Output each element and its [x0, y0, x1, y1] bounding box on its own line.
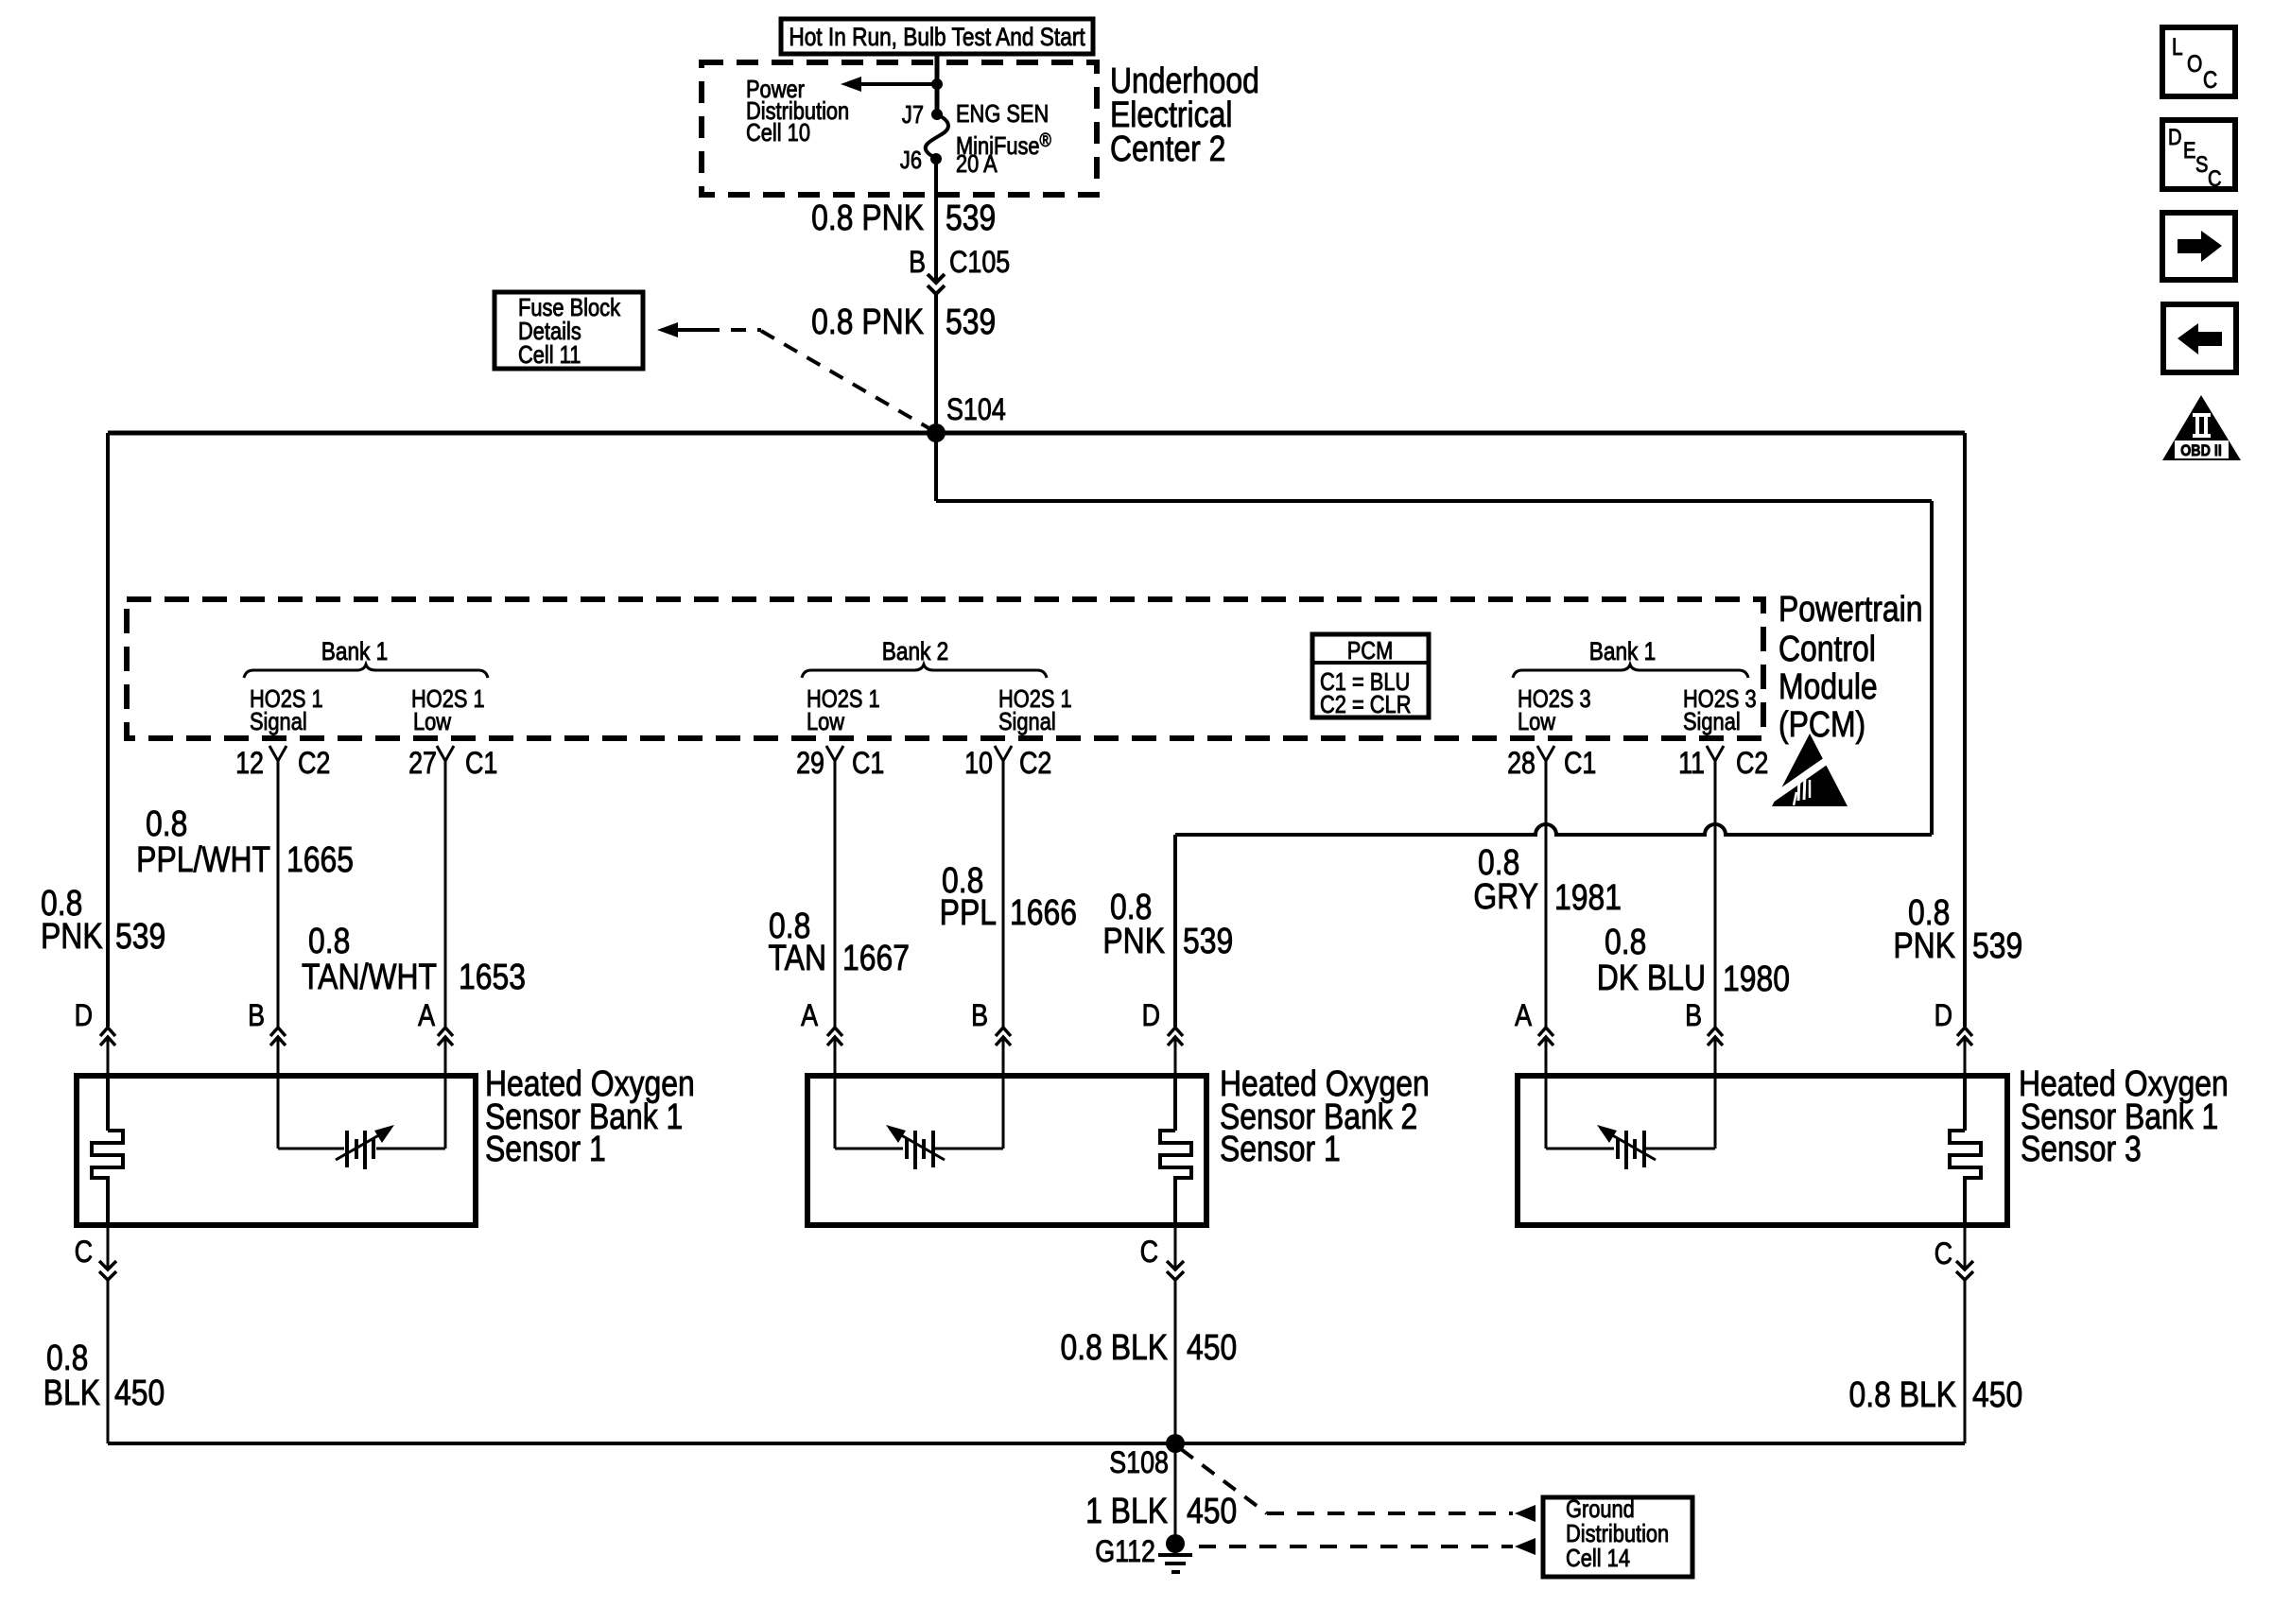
- svg-text:1981: 1981: [1554, 877, 1622, 917]
- svg-text:O: O: [2187, 50, 2202, 77]
- svg-text:D: D: [1935, 999, 1952, 1033]
- svg-text:OBD II: OBD II: [2180, 442, 2222, 459]
- svg-text:C: C: [1935, 1237, 1952, 1271]
- svg-text:PCM: PCM: [1347, 637, 1394, 665]
- svg-text:C2: C2: [1019, 747, 1051, 781]
- sensor2 pin D letter and connector: [1142, 999, 1183, 1076]
- sensor3 sense element: [1546, 1076, 1715, 1169]
- svg-text:Hot In Run, Bulb Test And Star: Hot In Run, Bulb Test And Start: [789, 23, 1084, 51]
- DESC icon box: [2162, 120, 2235, 191]
- sensor1 pin D letter and connector: [75, 999, 115, 1076]
- svg-text:0.8 PNK: 0.8 PNK: [811, 302, 924, 341]
- dashed reference from G112 to ground distribution: [1199, 1538, 1536, 1555]
- svg-text:G112: G112: [1095, 1535, 1155, 1569]
- svg-text:Control: Control: [1778, 629, 1876, 668]
- svg-text:20 A: 20 A: [956, 150, 998, 178]
- svg-text:C105: C105: [949, 246, 1010, 280]
- sensor2 pin B letter and connector: [971, 999, 1011, 1076]
- inner wire vertical x2043: [1930, 501, 1934, 835]
- inner wire vertical to sensor2 D: [1173, 835, 1177, 1027]
- wire label 0.8 PNK 539 (right): [1893, 892, 2022, 965]
- svg-text:539: 539: [946, 302, 996, 341]
- svg-text:PNK: PNK: [41, 916, 103, 956]
- svg-text:B: B: [248, 999, 265, 1033]
- svg-text:1667: 1667: [842, 938, 910, 977]
- svg-text:Cell 14: Cell 14: [1566, 1545, 1630, 1572]
- bank 2 group label (middle): [802, 637, 1072, 735]
- svg-text:Module: Module: [1778, 666, 1878, 706]
- svg-text:(PCM): (PCM): [1778, 704, 1865, 744]
- svg-text:D: D: [1142, 999, 1160, 1033]
- svg-text:Sensor 3: Sensor 3: [2021, 1129, 2142, 1168]
- sensor3 heater element: [1950, 1076, 1981, 1225]
- sensor3 pin C letter and connector: [1935, 1225, 1973, 1443]
- right vertical wire (PNK 539 to sensor3 D): [1963, 433, 1967, 1027]
- svg-text:C: C: [2203, 66, 2217, 93]
- sensor2 pin C letter and connector: [1140, 1225, 1184, 1443]
- svg-text:C2: C2: [298, 747, 330, 781]
- svg-text:Bank 1: Bank 1: [1589, 637, 1657, 665]
- svg-text:Powertrain: Powertrain: [1778, 589, 1923, 629]
- svg-text:PNK: PNK: [1102, 921, 1165, 960]
- svg-text:Sensor 1: Sensor 1: [485, 1129, 606, 1168]
- underhood electrical center 2 label: [1110, 60, 1259, 168]
- connector C105 pin B: [909, 246, 1010, 294]
- LOC icon box: [2162, 27, 2235, 96]
- svg-text:Cell 10: Cell 10: [746, 119, 810, 147]
- wire label 0.8 PNK 539 (below C105): [811, 302, 996, 341]
- svg-text:28: 28: [1507, 747, 1536, 781]
- svg-text:B: B: [971, 999, 988, 1033]
- PCM dashed box: [127, 599, 1763, 738]
- wire label 0.8 BLK 450 (middle): [1060, 1327, 1237, 1367]
- svg-text:A: A: [801, 999, 818, 1033]
- svg-text:D: D: [75, 999, 93, 1033]
- svg-text:450: 450: [114, 1373, 165, 1412]
- svg-text:J6: J6: [900, 147, 922, 174]
- svg-text:Distribution: Distribution: [1566, 1520, 1669, 1547]
- PCM pin 11 C2: [1678, 746, 1768, 781]
- svg-text:TAN: TAN: [769, 938, 826, 977]
- powertrain control module (PCM) label: [1778, 589, 1923, 744]
- svg-text:C1: C1: [1564, 747, 1596, 781]
- sensor3 label: [2019, 1063, 2229, 1168]
- bank 1 group label (left): [244, 637, 488, 735]
- wire pin27 to sensor1 A: [444, 761, 447, 1027]
- splice S104: [927, 393, 1006, 442]
- svg-text:27: 27: [408, 747, 437, 781]
- sensor1 heater element: [92, 1076, 123, 1225]
- bank 1 group label (right): [1513, 637, 1757, 735]
- sensor2 label: [1220, 1063, 1430, 1168]
- wire from hot box to fuse: [935, 54, 940, 114]
- fuse block details cell 11 box: [495, 292, 643, 369]
- wire label 0.8 PPL 1666: [940, 860, 1077, 932]
- svg-text:C2: C2: [1736, 747, 1768, 781]
- svg-text:Ground: Ground: [1566, 1495, 1635, 1523]
- wire label 0.8 BLK 450 (right): [1848, 1374, 2022, 1414]
- OBD II triangle icon: [2162, 395, 2241, 460]
- svg-text:PPL: PPL: [940, 892, 997, 932]
- underhood electrical center 2 dashed box: [702, 62, 1097, 195]
- svg-text:0.8: 0.8: [1605, 922, 1646, 961]
- svg-text:B: B: [1685, 999, 1702, 1033]
- svg-text:Cell 11: Cell 11: [518, 341, 581, 369]
- inner wire S104 down: [934, 433, 938, 501]
- PCM pin 29 C1: [796, 746, 884, 781]
- svg-text:539: 539: [946, 198, 996, 237]
- svg-text:L: L: [2172, 33, 2183, 60]
- splice S108: [1109, 1434, 1185, 1480]
- wire fuse to C105: [934, 159, 938, 284]
- wire label 0.8 PNK 539 (sensor2 D): [1102, 887, 1233, 960]
- sensor1 label: [485, 1063, 695, 1168]
- svg-text:S: S: [2195, 151, 2208, 177]
- dashed reference arrow to fuse block details: [657, 322, 932, 430]
- svg-text:S108: S108: [1109, 1446, 1169, 1480]
- wire label 0.8 PNK 539 (left): [41, 883, 165, 956]
- sensor3 pin A letter and connector: [1515, 999, 1553, 1076]
- svg-text:C2 = CLR: C2 = CLR: [1320, 691, 1411, 718]
- sensor1 pin B letter and connector: [248, 999, 286, 1076]
- svg-text:Low: Low: [413, 708, 452, 735]
- svg-text:ENG SEN: ENG SEN: [956, 100, 1049, 128]
- inner wire horizontal y530: [936, 499, 1932, 503]
- main horizontal wire at S104: [108, 431, 1965, 436]
- svg-text:Center 2: Center 2: [1110, 129, 1225, 168]
- svg-text:0.8 PNK: 0.8 PNK: [811, 198, 924, 237]
- svg-text:29: 29: [796, 747, 824, 781]
- sensor box 2 (HO2S bank2 sensor1): [807, 1076, 1206, 1225]
- sensor box 1 (HO2S bank1 sensor1): [77, 1076, 476, 1225]
- ground distribution cell 14 box: [1543, 1495, 1692, 1577]
- svg-text:1666: 1666: [1010, 892, 1077, 932]
- ESD warning symbol: [1769, 734, 1848, 806]
- svg-text:0.8: 0.8: [46, 1338, 88, 1377]
- svg-text:S104: S104: [946, 393, 1006, 427]
- sensor1 pin C letter and connector: [75, 1225, 116, 1443]
- wire pin10 to sensor2 B: [1002, 761, 1005, 1027]
- wire label 0.8 GRY 1981: [1473, 842, 1622, 917]
- svg-text:1665: 1665: [286, 839, 354, 879]
- svg-text:C: C: [2208, 165, 2222, 191]
- svg-text:Signal: Signal: [1683, 708, 1741, 735]
- PCM legend box: [1312, 634, 1429, 718]
- ground G112: [1095, 1534, 1192, 1572]
- wire pin29 to sensor2 A: [834, 761, 837, 1027]
- svg-text:TAN/WHT: TAN/WHT: [302, 957, 437, 996]
- svg-text:0.8 BLK: 0.8 BLK: [1848, 1374, 1956, 1414]
- svg-text:450: 450: [1187, 1491, 1237, 1530]
- svg-text:10: 10: [964, 747, 993, 781]
- wire C105 to S104: [934, 294, 938, 433]
- right arrow icon box: [2162, 213, 2235, 280]
- svg-text:539: 539: [115, 916, 165, 956]
- wire label 0.8 BLK 450 (left): [43, 1338, 165, 1412]
- wire pin12 to sensor1 B: [277, 761, 280, 1027]
- svg-text:E: E: [2183, 137, 2195, 163]
- svg-text:1 BLK: 1 BLK: [1085, 1491, 1168, 1530]
- svg-text:450: 450: [1187, 1327, 1237, 1367]
- sensor box 3 (HO2S bank1 sensor3): [1518, 1076, 2007, 1225]
- junction dot at arrow branch: [931, 78, 943, 90]
- svg-text:DK BLU: DK BLU: [1597, 958, 1706, 997]
- svg-text:PNK: PNK: [1893, 925, 1955, 965]
- PCM pin 27 C1: [408, 746, 497, 781]
- svg-text:A: A: [1515, 999, 1532, 1033]
- svg-text:D: D: [2168, 124, 2182, 149]
- svg-text:C: C: [75, 1235, 93, 1270]
- sensor3 pin D letter and connector: [1935, 999, 1972, 1076]
- svg-text:J7: J7: [902, 101, 924, 129]
- svg-text:0.8 BLK: 0.8 BLK: [1060, 1327, 1168, 1367]
- left vertical wire (PNK 539 to sensor1 D): [106, 433, 110, 1027]
- wire label 1 BLK 450: [1085, 1491, 1237, 1530]
- svg-text:450: 450: [1972, 1374, 2022, 1414]
- svg-text:Bank 1: Bank 1: [321, 637, 389, 665]
- left arrow icon box: [2163, 304, 2236, 372]
- power distribution cell 10 label: [746, 76, 849, 147]
- wire pin11 to sensor3 B: [1714, 761, 1717, 1027]
- bottom ground bus wire: [108, 1442, 1965, 1445]
- svg-text:B: B: [909, 246, 926, 280]
- wire label 0.8 TAN 1667: [769, 906, 910, 977]
- sensor2 pin A letter and connector: [801, 999, 842, 1076]
- svg-text:C: C: [1140, 1235, 1158, 1270]
- svg-text:539: 539: [1972, 925, 2022, 965]
- sensor2 heater element: [1160, 1076, 1191, 1225]
- wire label 0.8 TAN/WHT 1653: [302, 921, 526, 996]
- svg-text:0.8: 0.8: [308, 921, 350, 960]
- svg-text:Sensor 1: Sensor 1: [1220, 1129, 1341, 1168]
- sensor1 sense element: [278, 1076, 445, 1169]
- inner wire horizontal y883 with hops: [1175, 824, 1932, 835]
- sensor3 pin B letter and connector: [1685, 999, 1723, 1076]
- sensor2 sense element: [835, 1076, 1003, 1169]
- svg-text:BLK: BLK: [43, 1373, 100, 1412]
- svg-text:1980: 1980: [1723, 959, 1790, 998]
- svg-text:539: 539: [1183, 921, 1233, 960]
- svg-text:Signal: Signal: [250, 708, 307, 735]
- wire label 0.8 PPL/WHT 1665: [136, 803, 354, 879]
- dashed reference from S108 to ground distribution: [1181, 1449, 1536, 1522]
- svg-text:PPL/WHT: PPL/WHT: [136, 839, 270, 879]
- PCM pin 12 C2: [235, 746, 330, 781]
- svg-text:C1: C1: [852, 747, 884, 781]
- wire label 0.8 PNK 539 (above C105): [811, 198, 996, 237]
- svg-text:Low: Low: [807, 708, 845, 735]
- svg-text:1653: 1653: [459, 957, 526, 996]
- svg-text:Bank 2: Bank 2: [882, 637, 949, 665]
- svg-text:11: 11: [1678, 747, 1705, 781]
- fuse value label ENG SEN MiniFuse 20 A: [956, 100, 1051, 178]
- svg-text:C1: C1: [465, 747, 497, 781]
- hot-in-run label box: [781, 19, 1093, 54]
- wire label 0.8 DK BLU 1980: [1597, 922, 1790, 998]
- svg-text:Signal: Signal: [998, 708, 1056, 735]
- svg-text:A: A: [418, 999, 435, 1033]
- fuse ENG SEN MiniFuse 20A: [926, 109, 948, 164]
- svg-text:12: 12: [235, 747, 264, 781]
- svg-text:0.8: 0.8: [146, 803, 187, 843]
- svg-text:Low: Low: [1518, 708, 1556, 735]
- sensor1 pin A letter and connector: [418, 999, 453, 1076]
- PCM pin 28 C1: [1507, 746, 1596, 781]
- PCM pin 10 C2: [964, 746, 1051, 781]
- svg-text:GRY: GRY: [1473, 876, 1538, 916]
- arrow to power distribution: [841, 77, 937, 92]
- wire S108 to G112: [1174, 1443, 1177, 1544]
- wire pin28 to sensor3 A: [1545, 761, 1548, 1027]
